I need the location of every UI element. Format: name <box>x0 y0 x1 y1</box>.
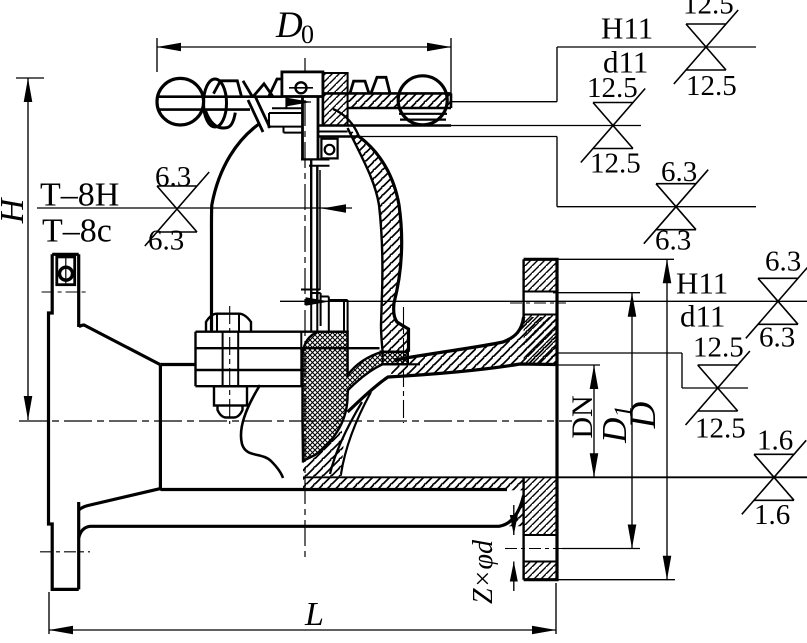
left cone bottom edge <box>79 489 161 510</box>
bore line + 1.6 leader <box>303 476 807 478</box>
T-8H/T-8c thread leader <box>37 207 352 209</box>
svg-text:6.3: 6.3 <box>661 156 697 188</box>
right flange bottom bolt hole lines <box>524 534 557 536</box>
svg-text:H11: H11 <box>601 11 653 46</box>
bonnet shoulder curve <box>333 109 359 137</box>
right clamp bolt centerline <box>403 307 405 423</box>
svg-text:12.5: 12.5 <box>587 72 638 104</box>
bonnet bell inner wall right <box>348 128 383 352</box>
right flange top bolt hole lines <box>524 291 557 293</box>
right flange top bolt hole centerline <box>510 302 566 304</box>
body top edge <box>160 363 195 366</box>
stem nut column hatch <box>323 73 348 126</box>
bearing box <box>321 139 337 159</box>
dimension H <box>16 77 44 79</box>
bonnet flange plates <box>196 332 380 387</box>
bonnet bell wall hatch band <box>348 128 409 352</box>
bonnet bell outer wall left <box>211 124 259 332</box>
bearing ball circle <box>325 145 335 155</box>
horizontal pipe axis centerline <box>19 420 572 422</box>
finish symbol 6.3 far right <box>746 264 807 338</box>
svg-text:Z×φd: Z×φd <box>468 539 499 604</box>
svg-text:D: D <box>623 401 664 429</box>
dimension D0 <box>156 38 158 72</box>
stem step lines <box>301 158 330 160</box>
inlet cone upper wall hatch band <box>390 317 557 377</box>
leader H11/d11 middle right <box>280 300 807 302</box>
handwheel left small knob ellipse <box>204 79 227 127</box>
handwheel rim lines left <box>158 95 282 98</box>
disc connection box <box>301 290 348 332</box>
svg-text:d11: d11 <box>680 299 725 334</box>
leader stem 12.5 <box>318 125 641 127</box>
right flange hatch between tophole and bore <box>524 315 557 365</box>
right hub lower hatch <box>499 490 524 526</box>
left flange top bolt hole box <box>57 257 75 285</box>
pipe bottom outer line <box>160 488 507 491</box>
right flange hatch upper tab <box>524 259 557 291</box>
finish symbol 12.5 stem <box>581 89 645 163</box>
handwheel rim band right (sectioned) <box>348 93 451 108</box>
dimension D <box>554 258 674 260</box>
left flange top bolt hole centerline <box>42 291 89 293</box>
stem lower rod <box>310 159 312 302</box>
right flange bottom bolt hole centerline <box>505 548 562 550</box>
svg-text:T–8c: T–8c <box>42 213 112 250</box>
dimension D1 <box>553 292 640 294</box>
right flange hatch bottom tab <box>524 562 557 580</box>
svg-text:12.5: 12.5 <box>683 0 734 21</box>
handwheel right knob circle <box>398 76 447 125</box>
leader gland 6.3 <box>318 136 557 138</box>
svg-text:T–8H: T–8H <box>40 177 119 214</box>
svg-text:6.3: 6.3 <box>759 322 795 354</box>
spoke hump C <box>269 79 299 96</box>
dimension DN <box>557 364 600 366</box>
gland step shoulder <box>285 97 287 109</box>
right knob chord lines <box>399 113 447 115</box>
leader 12.5 flange face <box>557 352 682 354</box>
body front bulge curve <box>241 385 283 478</box>
left clamp bolt hex head <box>206 314 251 332</box>
stem upper section <box>301 97 304 160</box>
spoke hump D right <box>350 81 369 93</box>
leader H11/d11 top <box>286 101 311 103</box>
inlet bore top wall <box>348 364 557 412</box>
handwheel left knob circle <box>157 78 204 125</box>
right flange left face <box>522 259 524 322</box>
finish symbol 6.3 left <box>145 172 209 246</box>
hub right edge down <box>322 72 325 126</box>
spoke under-rim diagonals <box>248 100 263 132</box>
left clamp bolt shank <box>222 332 224 387</box>
left flange right face upper segment <box>77 254 80 327</box>
svg-text:L: L <box>304 596 324 633</box>
left flange bottom bolt hole centerline <box>40 551 90 553</box>
spoke under-rim U curve <box>206 111 236 128</box>
packing gland stepped profile <box>268 108 303 132</box>
svg-text:6.3: 6.3 <box>765 246 801 278</box>
svg-text:12.5: 12.5 <box>590 148 641 180</box>
finish symbol 12.5 lower right <box>686 351 750 425</box>
body bottom silhouette <box>79 496 524 539</box>
hub screw circle <box>296 82 307 93</box>
svg-text:6.3: 6.3 <box>148 225 184 257</box>
right flange outline <box>524 259 557 579</box>
yoke sleeve top edge <box>318 124 451 126</box>
finish symbol 6.3 right <box>644 170 708 244</box>
svg-text:12.5: 12.5 <box>686 70 737 102</box>
svg-text:1.6: 1.6 <box>754 499 790 531</box>
svg-text:H: H <box>0 196 31 224</box>
svg-text:6.3: 6.3 <box>155 161 191 193</box>
svg-text:12.5: 12.5 <box>693 332 744 364</box>
left cone top edge <box>79 325 160 365</box>
left flange right face lower segment <box>77 502 80 589</box>
bonnet bell outer wall right <box>359 137 409 352</box>
weir solid hatch <box>303 428 344 477</box>
left clamp bolt centerline <box>229 306 231 424</box>
inlet cone outer wall (diaphragm top curve) <box>394 317 524 360</box>
spoke hump B <box>253 84 273 97</box>
body left wall <box>159 365 162 489</box>
svg-text:12.5: 12.5 <box>695 413 746 445</box>
finish symbol 12.5 top right <box>674 10 738 84</box>
svg-text:1.6: 1.6 <box>757 425 793 457</box>
vertical centerline of valve <box>304 58 306 557</box>
dimension L <box>48 592 50 634</box>
left clamp bolt nut <box>214 386 247 405</box>
body top edge right <box>383 363 420 365</box>
svg-text:6.3: 6.3 <box>655 225 691 257</box>
weir edge line A <box>341 392 371 474</box>
pipe bottom wall hatch band <box>303 477 524 490</box>
svg-text:0: 0 <box>301 20 314 49</box>
bonnet flange right tip bottom edge <box>380 351 409 353</box>
yoke sleeve bottom edge <box>318 135 359 137</box>
weir edge line B <box>330 402 362 474</box>
handwheel hub cap <box>282 72 323 97</box>
spoke hump E right <box>371 77 390 93</box>
svg-text:D: D <box>275 5 303 46</box>
dimension Z x phi d <box>513 505 515 535</box>
right flange hatch below bore <box>524 477 557 535</box>
spoke hump A <box>214 81 242 96</box>
finish symbol 1.6 <box>742 440 806 514</box>
diaphragm mass cross-hatch (pad + sidewall) <box>303 332 408 461</box>
left flange bolt hole circle <box>60 267 73 280</box>
svg-text:H11: H11 <box>676 266 728 301</box>
left flange plate outline <box>49 254 79 589</box>
diaphragm clamped edge strip <box>383 352 408 365</box>
